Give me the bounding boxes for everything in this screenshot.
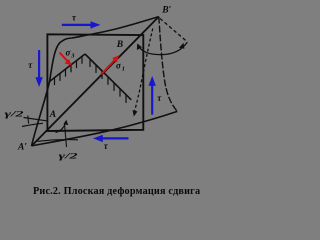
angle arc at A with arrowhead (56, 122, 67, 133)
dashed ray from B' (160, 19, 188, 43)
caption (33, 186, 219, 197)
tick on callout (27, 116, 30, 124)
principal plane (right, hatched) (85, 54, 131, 100)
tau arrow right (blue, up) (149, 76, 156, 115)
dashed arc B->bottom with arrowhead (134, 29, 153, 114)
svg-text:A: A (49, 110, 56, 120)
flat angle arc at A' (38, 140, 79, 142)
deformed left+top edge A'->B' outline (32, 17, 159, 146)
angle arc at B' with arrowheads (138, 42, 188, 54)
svg-text:γ/2: γ/2 (59, 152, 78, 161)
svg-text:B: B (116, 40, 123, 50)
svg-text:1: 1 (122, 65, 125, 72)
sigma1 red arrow (101, 55, 119, 74)
hatch ticks right plane (90, 59, 126, 103)
tau arrow top (blue, right) (62, 21, 101, 28)
square element ABCD (47, 34, 143, 131)
svg-text:γ/2: γ/2 (5, 109, 25, 119)
diagonal A'->B' (32, 17, 159, 146)
deformed right edge B'->C' (159, 17, 178, 112)
hatch ticks left plane (55, 56, 83, 85)
deformed bottom edge A'->C' (32, 111, 178, 145)
svg-text:B′: B′ (161, 6, 171, 16)
svg-text:3: 3 (70, 52, 75, 59)
sigma3 red arrow (60, 53, 72, 66)
principal plane (left, hatched) (50, 54, 86, 82)
arc between left edges (22, 123, 43, 126)
callout line gamma/2 lower (65, 124, 67, 147)
callout line gamma/2 upper (24, 118, 47, 121)
svg-text:A′: A′ (17, 143, 27, 153)
tau arrow bottom (blue, left) (93, 135, 129, 142)
tau arrow left (blue, down) (35, 50, 42, 87)
